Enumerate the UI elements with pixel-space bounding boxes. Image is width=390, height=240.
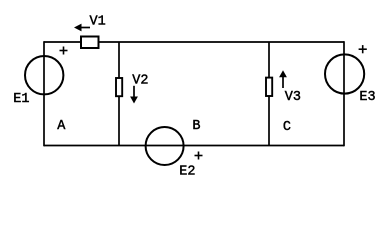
plus of E1 (60, 47, 68, 55)
arrow V2 (points down) (130, 86, 138, 104)
svg-text:B: B (192, 119, 200, 134)
svg-text:V3: V3 (285, 90, 301, 105)
source E3 (circle on right wire) (325, 54, 364, 93)
wire middle branch V2 (118, 42, 120, 146)
arrow V1 (points left) (74, 24, 90, 32)
wire top: node between V1 and branches (44, 41, 344, 43)
svg-text:A: A (57, 119, 66, 134)
svg-text:V2: V2 (132, 73, 148, 88)
plus of E3 (359, 45, 367, 53)
wire right (through E3) (343, 41, 345, 146)
source E1 (circle on left wire) (25, 56, 63, 94)
svg-text:C: C (283, 120, 291, 135)
resistor V1 (horizontal box on top wire) (81, 37, 99, 49)
svg-text:V1: V1 (90, 14, 106, 29)
arrow V3 (points up) (279, 70, 287, 88)
svg-text:E3: E3 (359, 90, 375, 105)
svg-text:E2: E2 (179, 164, 195, 179)
plus of E2 (195, 152, 203, 160)
wire left (through E1) (43, 41, 45, 146)
resistor V3 (vertical box on right-middle branch) (266, 78, 272, 96)
source E2 (circle on bottom wire) (146, 127, 184, 165)
wire bottom (44, 145, 344, 147)
wire middle branch V3 (268, 42, 270, 146)
resistor V2 (vertical box on middle branch) (116, 78, 122, 96)
svg-text:E1: E1 (13, 92, 29, 107)
